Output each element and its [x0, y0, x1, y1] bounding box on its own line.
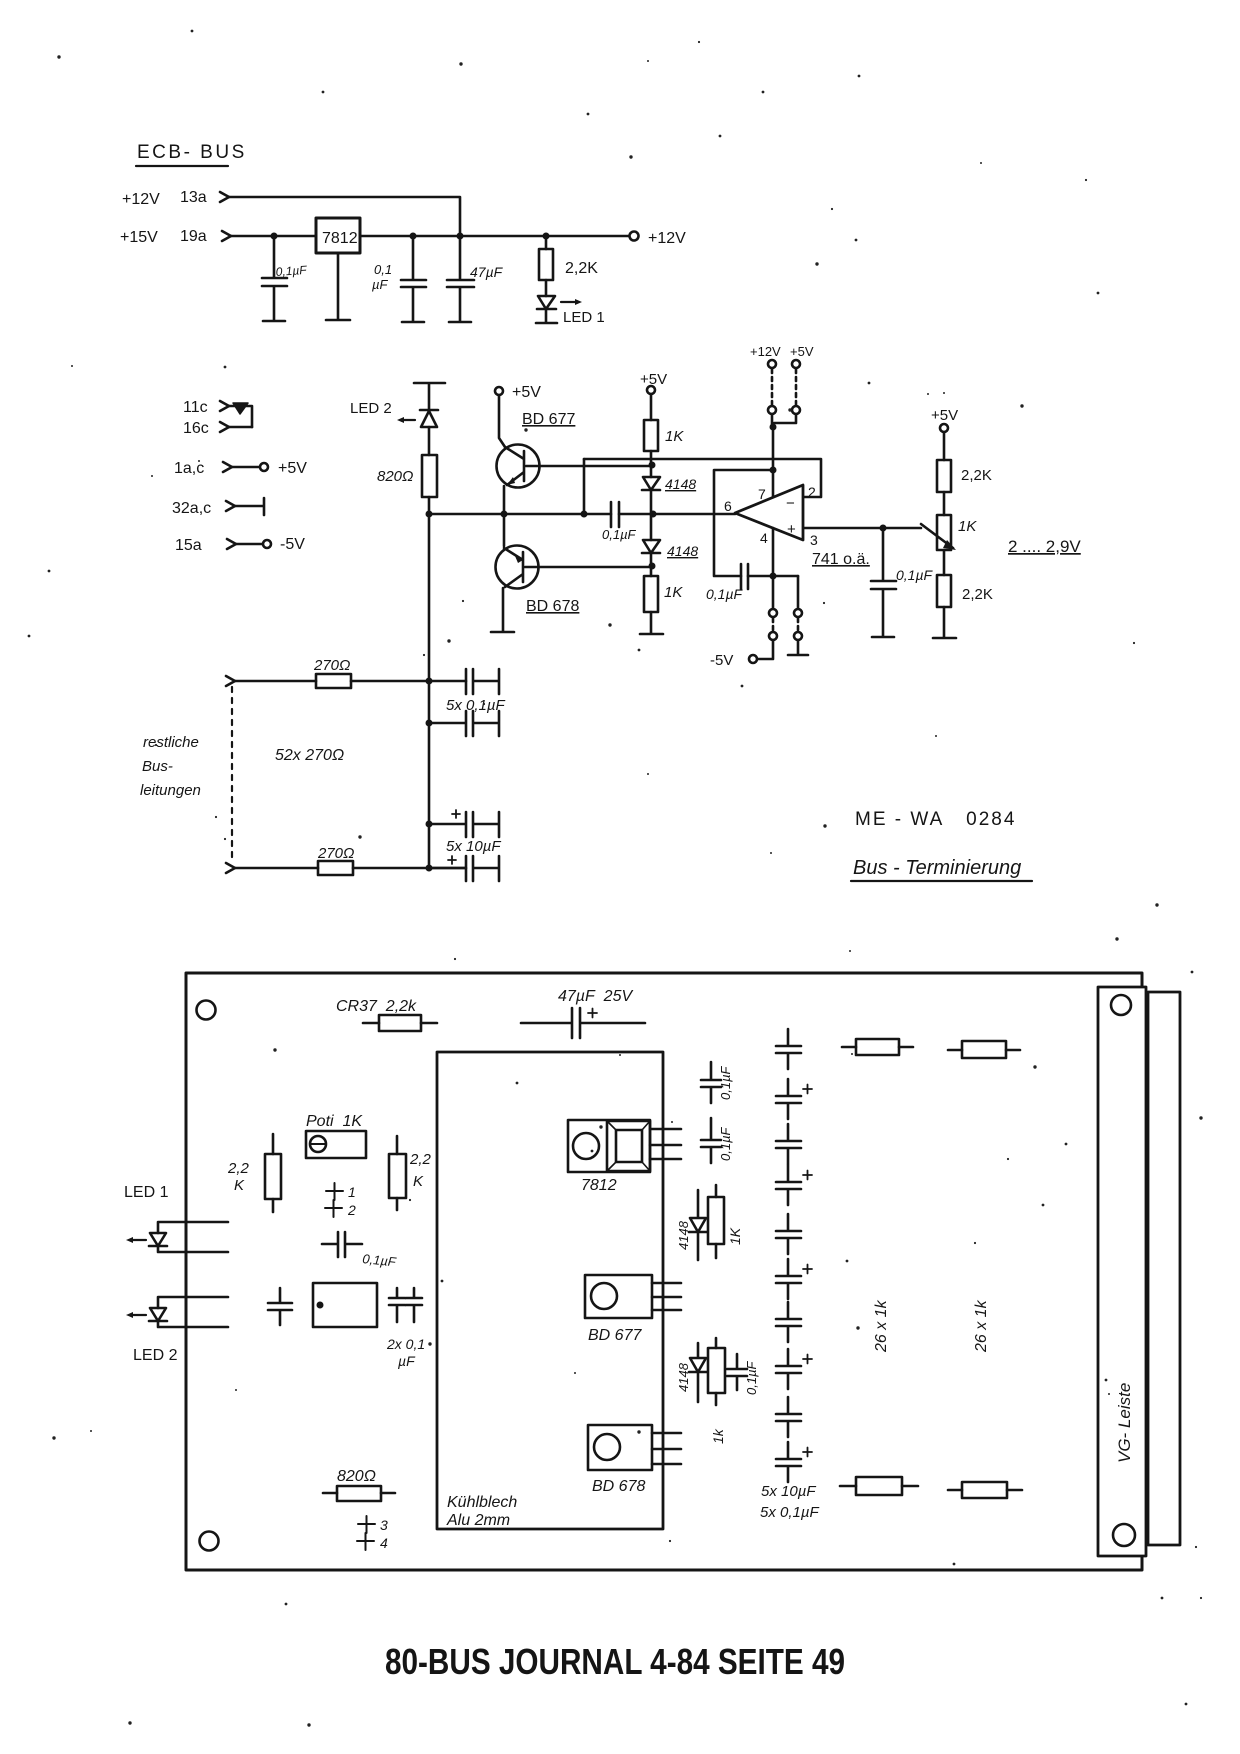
pcb mounting hole bottom-left: [200, 1532, 219, 1551]
svg-text:52x 270Ω: 52x 270Ω: [275, 747, 344, 764]
svg-text:2: 2: [347, 1202, 356, 1218]
pcb resistor network top 2: [948, 1041, 1020, 1058]
pcb transistor BD677 package: [585, 1275, 681, 1344]
pcb board outline: [186, 973, 1142, 1570]
capacitor C7 bus 0,1uF: [446, 669, 506, 714]
connector 11c: [183, 399, 252, 427]
wire supply bypass box: [714, 470, 773, 576]
svg-text:2,2K: 2,2K: [962, 586, 993, 603]
pcb heatsink box outline: [437, 1052, 663, 1529]
diode D2 4148: [642, 540, 698, 576]
jumper pads bottom: [710, 609, 808, 669]
capacitor C1 0,1uF input: [262, 236, 308, 321]
pcb test point 1: [326, 1183, 356, 1200]
svg-text:4148: 4148: [676, 1220, 691, 1250]
wire LED2 to R820: [428, 427, 431, 455]
capacitor C3 47uF: [447, 236, 504, 322]
resistor R5 2,2K: [933, 575, 993, 638]
wire to right jumper pad: [797, 576, 800, 608]
wire BD678 base: [525, 566, 652, 569]
svg-text:4: 4: [760, 530, 768, 546]
resistor R2 1K: [644, 394, 684, 477]
svg-text:0,1µF: 0,1µF: [718, 1065, 733, 1100]
svg-text:1a,c: 1a,c: [174, 460, 204, 477]
pcb resistor CR37 2,2k: [336, 998, 437, 1031]
wire cap to pin4 node: [748, 575, 798, 578]
pcb LED1: [124, 1184, 228, 1252]
diode D1 4148: [642, 476, 696, 540]
regulator U2 7812: [316, 218, 360, 253]
svg-text:7812: 7812: [322, 230, 358, 247]
svg-text:16c: 16c: [183, 420, 209, 437]
pcb resistor network bottom 2: [948, 1482, 1022, 1498]
svg-text:Poti 1K: Poti 1K: [306, 1113, 363, 1130]
pcb capacitors 2x0,1uF: [386, 1288, 425, 1369]
potentiometer P1 1K: [937, 515, 977, 575]
net +15V bus pin 19a label: [120, 228, 207, 246]
label Bus-Terminierung: [851, 857, 1032, 881]
svg-text:26 x 1k: 26 x 1k: [873, 1299, 890, 1353]
pcb capacitor column x788 y1417: [776, 1397, 801, 1437]
pcb potentiometer Poti 1K: [306, 1113, 366, 1158]
svg-text:-5V: -5V: [280, 536, 305, 553]
svg-text:Bus-: Bus-: [142, 758, 173, 775]
svg-text:VG- Leiste: VG- Leiste: [1115, 1383, 1134, 1463]
junction dot supply: [770, 467, 777, 474]
pcb resistor 2,2K right: [389, 1136, 432, 1210]
capacitor C8 bus 0,1uF: [426, 711, 500, 736]
pcb capacitor 0,1uF col1: [701, 1062, 733, 1103]
svg-text:0,1µF: 0,1µF: [602, 527, 637, 542]
svg-text:0,1: 0,1: [374, 262, 392, 277]
svg-text:LED 2: LED 2: [133, 1347, 178, 1364]
svg-text:2: 2: [808, 484, 816, 500]
svg-text:+5V: +5V: [278, 460, 307, 477]
svg-text:LED 1: LED 1: [124, 1184, 169, 1201]
svg-text:+5V: +5V: [931, 407, 958, 424]
svg-text:-5V: -5V: [710, 652, 733, 669]
svg-text:26 x 1k: 26 x 1k: [973, 1299, 990, 1353]
svg-text:6: 6: [724, 498, 732, 514]
svg-text:+: +: [787, 521, 796, 538]
connector 16c: [183, 420, 252, 437]
svg-text:820Ω: 820Ω: [377, 468, 413, 485]
svg-text:741 o.ä.: 741 o.ä.: [812, 551, 870, 568]
svg-text:0,1µF: 0,1µF: [362, 1251, 398, 1270]
svg-text:0,1µF: 0,1µF: [706, 586, 744, 602]
svg-text:0,1µF: 0,1µF: [896, 567, 934, 583]
resistor R4 2,2K: [937, 432, 992, 515]
svg-text:1K: 1K: [958, 518, 977, 535]
svg-text:7812: 7812: [581, 1177, 617, 1194]
op-amp U1 741: [724, 484, 870, 568]
capacitor C2 0,1uF: [372, 236, 426, 322]
svg-text:1K: 1K: [665, 428, 684, 445]
terminal +12V out: [630, 230, 687, 247]
pcb capacitor column x788 y1462: [776, 1442, 812, 1482]
svg-text:2,2: 2,2: [409, 1151, 432, 1168]
capacitor C6 0,1uF pin3: [871, 528, 934, 637]
pcb transistor BD678 package: [588, 1425, 681, 1495]
pcb capacitor column x788 y1322: [776, 1302, 801, 1342]
wire row1 to cap: [351, 680, 466, 683]
svg-text:270Ω: 270Ω: [313, 657, 350, 674]
pcb capacitor column x788 y1099: [776, 1079, 812, 1119]
svg-text:−: −: [786, 495, 795, 512]
svg-text:5x 10µF: 5x 10µF: [446, 838, 501, 855]
label Kuehlblech: [446, 1494, 517, 1529]
svg-text:+5V: +5V: [790, 344, 814, 359]
pcb capacitor column x788 y1279: [776, 1259, 812, 1299]
wire bus row1: [235, 680, 316, 683]
transistor Q2 BD678: [491, 514, 579, 632]
svg-text:4148: 4148: [676, 1362, 691, 1392]
svg-text:80-BUS JOURNAL 4-84 SEITE 49: 80-BUS JOURNAL 4-84 SEITE 49: [385, 1641, 845, 1682]
wire dashed remaining bus lines: [231, 687, 233, 862]
svg-text:7: 7: [758, 486, 766, 502]
wire row4 to junction: [353, 867, 466, 870]
svg-text:ECB- BUS: ECB- BUS: [137, 142, 247, 163]
svg-text:2,2: 2,2: [227, 1160, 250, 1177]
svg-text:19a: 19a: [180, 228, 207, 245]
pcb test point 2: [325, 1200, 356, 1218]
pcb resistor 1k lower: [708, 1338, 726, 1444]
svg-text:+12V: +12V: [122, 191, 160, 208]
label restliche Busleitungen: [140, 734, 201, 799]
svg-text:820Ω: 820Ω: [337, 1468, 376, 1485]
pcb IC box: [313, 1283, 377, 1327]
pcb test point 3: [358, 1516, 388, 1533]
pcb VG-Leiste strip: [1098, 987, 1146, 1556]
svg-text:BD 678: BD 678: [526, 598, 579, 615]
svg-text:4148: 4148: [667, 543, 698, 559]
rail bar above LED2: [414, 383, 445, 410]
pcb test point 4: [357, 1533, 388, 1551]
pcb resistor network top 1: [842, 1039, 913, 1055]
resistor R6 270ohm: [313, 657, 351, 688]
connector bus line top: [226, 676, 235, 686]
label 5x10uF 5x0,1uF: [760, 1483, 820, 1521]
node OUT junction: [426, 511, 433, 518]
svg-text:15a: 15a: [175, 537, 202, 554]
svg-text:4: 4: [380, 1535, 388, 1551]
svg-text:3: 3: [810, 532, 818, 548]
resistor R7 270ohm: [317, 845, 354, 875]
potentiometer wiper arrow: [921, 524, 953, 548]
pcb capacitor 0,1uF mid: [322, 1232, 398, 1270]
wire bus row4: [235, 867, 318, 870]
wire BD677 base: [526, 465, 652, 468]
pcb regulator 7812 package: [568, 1120, 681, 1194]
resistor R8 820ohm: [377, 455, 437, 497]
wire feedback drop: [583, 459, 586, 514]
wire pin4 down: [772, 528, 775, 608]
svg-text:Kühlblech: Kühlblech: [447, 1494, 517, 1511]
pcb capacitor column x788 y1234: [776, 1214, 801, 1254]
wire regulator output rail: [360, 235, 629, 238]
junction dots on rail: [271, 233, 550, 240]
pcb LED2: [126, 1297, 228, 1364]
svg-text:LED 2: LED 2: [350, 400, 392, 417]
pcb resistor 2,2K left: [227, 1134, 281, 1212]
svg-text:47µF: 47µF: [470, 264, 504, 280]
wire pin7 supply: [772, 427, 775, 497]
pcb capacitor column x788 y1049: [776, 1029, 801, 1069]
svg-text:µF: µF: [372, 277, 388, 292]
capacitor C5 0,1uF series: [602, 502, 637, 542]
wire bus vertical: [428, 514, 431, 869]
junction dot pin3: [880, 525, 887, 532]
svg-text:+15V: +15V: [120, 229, 158, 246]
wire output line right segment to opamp pin6: [619, 513, 735, 516]
capacitor C9 bus 10uF: [426, 810, 502, 855]
svg-text:4148: 4148: [665, 476, 696, 492]
connector 1a,c to +5V: [174, 460, 307, 477]
pcb second connector strip: [1148, 992, 1180, 1545]
svg-text:BD 677: BD 677: [522, 411, 575, 428]
pcb resistor network bottom 1: [840, 1477, 918, 1495]
LED1 diode: [536, 296, 605, 326]
svg-text:11c: 11c: [183, 399, 208, 416]
svg-text:1K: 1K: [664, 584, 683, 601]
svg-text:BD 677: BD 677: [588, 1327, 642, 1344]
terminal +5V right chain: [931, 407, 958, 432]
svg-text:LED 1: LED 1: [563, 309, 605, 326]
wire R820 to output node: [428, 497, 431, 514]
svg-text:0,1µF: 0,1µF: [718, 1126, 733, 1161]
svg-text:K: K: [413, 1173, 424, 1190]
pcb diode 4148 upper: [676, 1190, 707, 1260]
svg-text:270Ω: 270Ω: [317, 845, 354, 862]
svg-text:1K: 1K: [727, 1227, 743, 1245]
connector 32a,c to ground bar: [172, 498, 264, 517]
node junction base678: [649, 563, 656, 570]
svg-text:2,2K: 2,2K: [961, 467, 992, 484]
transistor Q1 BD677: [497, 395, 576, 514]
pcb capacitor 0,1uF lower: [727, 1354, 759, 1395]
connector bus line bottom: [226, 863, 235, 873]
svg-text:47µF 25V: 47µF 25V: [558, 988, 633, 1005]
wire 13a to rail: [229, 197, 460, 236]
svg-text:5x 10µF: 5x 10µF: [761, 1483, 816, 1500]
svg-text:0,1µF: 0,1µF: [275, 263, 307, 279]
title ECB-BUS: [136, 142, 247, 166]
terminal +5V diode chain: [640, 371, 667, 394]
svg-text:BD 678: BD 678: [592, 1478, 645, 1495]
svg-text:restliche: restliche: [143, 734, 199, 751]
resistor R1 2,2K: [539, 236, 598, 296]
wire output line left segment: [429, 513, 611, 516]
svg-text:0,1µF: 0,1µF: [744, 1360, 759, 1395]
svg-text:1: 1: [348, 1184, 356, 1200]
connector 13a: [220, 192, 229, 202]
svg-text:K: K: [234, 1177, 245, 1194]
junction dot pin4: [770, 573, 777, 580]
connector 19a: [222, 231, 231, 241]
capacitor C4 0,1uF supply: [706, 564, 748, 602]
svg-text:2 .... 2,9V: 2 .... 2,9V: [1008, 537, 1081, 556]
svg-text:CR37 2,2k: CR37 2,2k: [336, 998, 417, 1015]
terminal +5V above BD677: [495, 384, 541, 401]
junction dots output line: [501, 511, 657, 518]
svg-text:32a,c: 32a,c: [172, 500, 211, 517]
pcb capacitor column x788 y1144: [776, 1124, 801, 1164]
svg-text:5x 0,1µF: 5x 0,1µF: [446, 697, 506, 714]
svg-text:leitungen: leitungen: [140, 782, 201, 799]
junction dot row1: [426, 678, 433, 685]
pcb mounting hole top-left: [197, 1001, 216, 1020]
svg-text:13a: 13a: [180, 189, 207, 206]
pcb capacitor column x788 y1369: [776, 1349, 812, 1389]
svg-text:2x 0,1: 2x 0,1: [386, 1336, 425, 1352]
svg-text:1k: 1k: [710, 1428, 726, 1444]
wire feedback pin2: [584, 459, 821, 497]
svg-text:Alu 2mm: Alu 2mm: [446, 1512, 510, 1529]
pcb diode 4148 lower: [676, 1343, 707, 1402]
jumper pads top: [750, 344, 814, 431]
pcb capacitor small left: [268, 1288, 292, 1325]
svg-text:µF: µF: [398, 1353, 416, 1369]
connector 15a to -5V: [175, 536, 305, 554]
pcb resistor 1K upper: [708, 1185, 743, 1258]
LED2 diode: [350, 400, 438, 427]
pcb capacitor 0,1uF col2: [701, 1118, 733, 1163]
svg-text:+5V: +5V: [512, 384, 541, 401]
pcb resistor 820ohm: [323, 1468, 395, 1501]
net +12V bus pin 13a label: [122, 189, 207, 208]
svg-text:Bus - Terminierung: Bus - Terminierung: [853, 857, 1021, 879]
svg-text:2,2K: 2,2K: [565, 260, 598, 277]
wire 19a to regulator: [231, 235, 316, 238]
node junction base677: [649, 462, 656, 469]
svg-text:+12V: +12V: [750, 344, 781, 359]
ground regulator pin: [326, 253, 350, 320]
svg-text:3: 3: [380, 1517, 388, 1533]
wire pin3 output: [804, 527, 921, 530]
svg-text:+12V: +12V: [648, 230, 686, 247]
resistor R3 1K: [640, 576, 683, 634]
svg-text:5x 0,1µF: 5x 0,1µF: [760, 1504, 820, 1521]
svg-text:ME - WA 0284: ME - WA 0284: [855, 809, 1016, 830]
pcb capacitor 47uF 25V: [521, 988, 645, 1038]
pcb capacitor column x788 y1185: [776, 1165, 812, 1205]
capacitor C10 bus 10uF: [426, 856, 500, 881]
